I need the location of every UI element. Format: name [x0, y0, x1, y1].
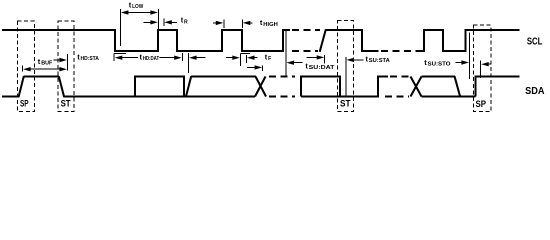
arrow tSU:DAT left: [287, 61, 303, 65]
dimension line tSU:STA (long): [345, 57, 347, 97]
arrow dim2 right: [226, 56, 240, 60]
dimension line tHIGH right: [241, 20, 243, 29]
arrow tHD:DAT right: [160, 56, 182, 60]
arrow tR pre: [144, 20, 158, 24]
wire SDA final envelope and stop rise: [422, 76, 520, 97]
wire SCL slanted rise and second part: [320, 30, 379, 52]
svg-text:SCL: SCL: [527, 37, 543, 48]
dashed box ST (repeated start condition): [337, 21, 353, 112]
arrow tLOW double: [121, 10, 158, 14]
dashed box SP (right stop condition): [474, 25, 492, 112]
arrow tHD:DAT left: [115, 56, 138, 60]
wire SDA low rail with start/stop trapezoid: [2, 76, 255, 97]
arrow tHIGH pre: [213, 21, 223, 25]
dimension line SDA X pointer: [262, 66, 264, 72]
arrow tHIGH post: [243, 21, 253, 25]
dimension line tF right: [245, 55, 247, 63]
node X crossing 2: [411, 77, 422, 97]
dimension line tHD:DAT left with tick: [114, 54, 126, 62]
wire SDA envelope 2 (ack + restart region): [301, 77, 388, 97]
dimension line tSU:STO left (long): [468, 33, 470, 80]
wire SCL dashed low segment: [292, 50, 318, 52]
dimension line tLOW right / tR left: [157, 9, 159, 29]
wire SDA dashed rails before X2: [390, 76, 410, 78]
dashed box ST (left start condition): [58, 21, 74, 112]
arrow tBUF double: [23, 67, 67, 71]
svg-text:ST: ST: [340, 98, 351, 108]
svg-text:ST: ST: [61, 98, 72, 108]
node X crossing 1: [255, 77, 266, 97]
dimension line tSU:DAT left (long): [285, 31, 287, 76]
wire SCL dashed low segment 2: [381, 50, 416, 52]
dimension line tR right: [163, 19, 165, 27]
dimension line tSU:STO right: [480, 61, 482, 79]
wire SCL dashed high segment: [292, 29, 320, 31]
arrow tF label pointer: [247, 56, 258, 60]
arrow tSU:DAT right: [306, 55, 324, 59]
dimension line tBUF right: [67, 54, 69, 71]
arrow dim2 left: [189, 56, 205, 60]
arrow tSU:STA: [347, 58, 364, 62]
dimension line tF left with tick: [240, 54, 250, 67]
svg-text:SP: SP: [476, 99, 487, 109]
wire SDA dashed rails after X1: [269, 76, 295, 78]
dimension line tHD:DAT right: [181, 53, 183, 61]
dimension line tHIGH left: [223, 20, 225, 29]
svg-text:SDA: SDA: [525, 86, 544, 97]
dimension line SDA change: [188, 53, 190, 73]
dimension line tBUF left: [22, 66, 24, 72]
dashed box SP (left stop condition): [18, 21, 35, 112]
wire SDA low rail under envelope2: [301, 96, 378, 98]
wire SCL main waveform: [2, 30, 290, 51]
wire SDA first data envelope: [135, 77, 184, 97]
svg-text:SP: SP: [20, 98, 29, 108]
arrow tBUF label pointer: [54, 58, 67, 62]
dimension line tLOW left: [119, 9, 121, 46]
arrow tSU:STO far pointer: [481, 62, 490, 66]
arrow tR post: [164, 20, 177, 24]
wire SCL last pulses: [416, 30, 520, 51]
wire SDA second bit slant rise: [186, 76, 256, 97]
dimension line tSU:DAT right: [324, 55, 326, 64]
arrow SDA X pointer: [247, 65, 262, 69]
arrow tSU:STO right pointer: [456, 60, 469, 64]
